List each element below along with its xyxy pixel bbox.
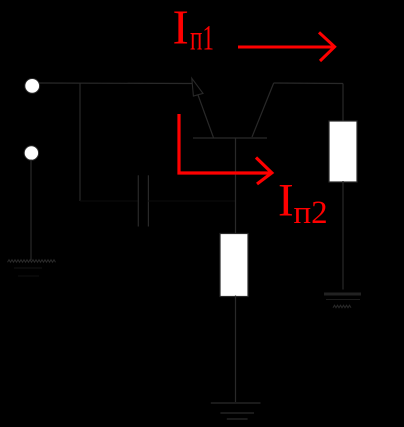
wire top rail collector to right corner xyxy=(274,82,343,85)
transistor VT1 emitter arrowhead xyxy=(192,78,203,96)
wire horizontal into capacitor left plate xyxy=(80,200,138,202)
transistor VT1 emitter line xyxy=(194,84,214,138)
transistor VT1 base bar xyxy=(193,137,267,139)
wire top rail from input terminal to transistor emitter xyxy=(39,82,193,85)
ground left lower hatch rows xyxy=(14,267,42,269)
arrow Ip2 (elbow current arrow) xyxy=(179,114,272,184)
wire resistor R1 to ground xyxy=(342,181,344,290)
ground right bar xyxy=(324,293,361,296)
wire vertical drop at x=80 xyxy=(79,83,81,201)
wire down to collector resistor xyxy=(342,84,344,122)
capacitor C1 right plate xyxy=(147,175,149,226)
svg-text:п2: п2 xyxy=(294,195,328,231)
ground left (hatched) xyxy=(8,260,56,263)
wire capacitor to transistor base lead xyxy=(148,200,235,202)
ground bottom bar 3 xyxy=(227,418,248,420)
ground right bar 2 xyxy=(326,299,360,301)
ground right hatch xyxy=(333,305,351,308)
svg-text:п1: п1 xyxy=(190,17,214,57)
arrow Ip1 (top current arrow) xyxy=(238,32,335,61)
terminal circle input 2 xyxy=(24,146,38,160)
svg-text:I: I xyxy=(173,0,189,55)
wire input 2 down to ground xyxy=(30,160,32,261)
terminal circle input 1 xyxy=(25,79,40,94)
transistor VT1 collector line xyxy=(252,83,274,137)
svg-text:I: I xyxy=(278,175,294,227)
wire resistor R2 down to ground xyxy=(235,296,237,403)
transistor VT1 base lead down xyxy=(235,138,237,234)
ground bottom bar 1 xyxy=(211,402,261,404)
resistor R1 (collector) xyxy=(329,121,357,182)
capacitor C1 left plate xyxy=(137,175,139,226)
resistor R2 (base) xyxy=(220,234,248,297)
ground bottom bar 2 xyxy=(220,412,254,414)
